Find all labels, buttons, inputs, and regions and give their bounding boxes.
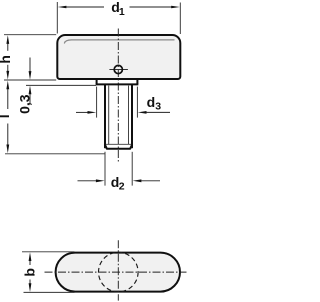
bushing bottom face: [96, 83, 139, 85]
stud chamfer line: [106, 143, 132, 145]
dimension h line upper: [7, 44, 9, 51]
d1 extension line right: [179, 3, 181, 35]
thread minor line right: [128, 86, 130, 145]
dimension b arrow down: [29, 283, 32, 292]
center mark circle: [114, 65, 122, 73]
dimension d2 left stub: [78, 180, 97, 182]
dimension d3 arrow right-side: [138, 111, 147, 114]
dimension d3 left stub: [76, 111, 88, 113]
dimension 0,3 lower stub line: [29, 94, 31, 104]
thread minor line left: [108, 86, 110, 145]
dimension l line upper: [7, 89, 9, 109]
dimension d2 arrow right-side: [133, 179, 142, 182]
knob head outline: [57, 35, 180, 79]
dimension h line lower: [7, 65, 9, 72]
svg-text:1: 1: [119, 6, 125, 18]
stud tip with chamfer: [105, 144, 132, 148]
dimension d3 arrow left-side: [88, 111, 97, 114]
d2 extension line left: [104, 152, 106, 186]
dimension d1 arrow right: [171, 6, 180, 9]
d3 extension line right: [136, 87, 138, 118]
vertical centerline (bottom view): [117, 240, 119, 300]
bushing right side: [136, 80, 138, 85]
dimension d1 line right segment: [130, 6, 176, 8]
bushing left side: [96, 80, 98, 85]
extension line stud tip (left, for l): [5, 153, 105, 155]
dimension d2 arrow left-side: [96, 179, 105, 182]
center mark horizontal tick: [109, 69, 128, 71]
svg-text:d: d: [147, 94, 156, 110]
dimension h arrow down: [6, 71, 9, 80]
extension line head bottom (left): [4, 79, 56, 81]
dimension l line lower: [7, 124, 9, 145]
dimension d1 arrow left: [58, 6, 67, 9]
svg-text:0,3: 0,3: [17, 94, 33, 114]
d1 extension line left: [56, 2, 58, 34]
b extension line bottom: [24, 291, 75, 293]
dimension 0,3 arrow up: [29, 86, 32, 95]
extension line bushing bottom (left): [26, 84, 96, 86]
d2 extension line right: [131, 152, 133, 186]
b extension line top: [22, 251, 75, 253]
d3 extension line left: [96, 87, 98, 118]
dimension 0,3 arrow down: [29, 71, 32, 80]
svg-text:l: l: [0, 114, 12, 118]
extension line head top (left): [4, 34, 56, 36]
horizontal centerline (bottom view): [45, 271, 187, 273]
dimension 0,3 upper stub line: [29, 58, 31, 72]
bottom view knob outline (stadium): [56, 253, 180, 292]
dimension l arrow up: [6, 81, 9, 90]
vertical centerline (front view): [117, 29, 119, 164]
dimension d2 right stub: [141, 180, 160, 182]
dimension b line lower: [29, 280, 31, 285]
stud right edge: [131, 84, 133, 148]
dimension b line upper: [29, 261, 31, 265]
dimension d3 right stub: [146, 111, 170, 113]
bushing hidden circle (bottom view): [99, 252, 139, 292]
svg-text:3: 3: [155, 101, 161, 113]
dimension d1 line left segment: [62, 6, 104, 8]
svg-text:h: h: [0, 55, 13, 64]
dimension l arrow down: [6, 145, 9, 154]
svg-text:2: 2: [119, 181, 125, 193]
head top highlight line: [65, 40, 175, 43]
svg-text:b: b: [21, 268, 37, 277]
dimension h arrow up: [6, 35, 9, 44]
dimension b arrow up: [29, 252, 32, 261]
stud left edge: [104, 84, 106, 148]
